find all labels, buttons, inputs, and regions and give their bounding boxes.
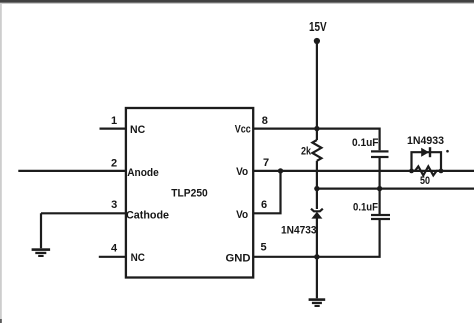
svg-text:3: 3 xyxy=(111,199,117,211)
svg-text:1N4933: 1N4933 xyxy=(407,135,444,147)
svg-text:Cathode: Cathode xyxy=(126,209,169,221)
svg-text:NC: NC xyxy=(131,252,145,264)
svg-text:0.1uF: 0.1uF xyxy=(353,201,378,213)
svg-text:Vo: Vo xyxy=(236,209,248,221)
svg-text:TLP250: TLP250 xyxy=(171,187,207,199)
svg-text:5: 5 xyxy=(260,242,266,254)
svg-text:7: 7 xyxy=(263,157,269,169)
svg-text:Anode: Anode xyxy=(127,167,159,179)
svg-text:1N4733: 1N4733 xyxy=(281,225,317,237)
svg-text:NC: NC xyxy=(130,124,145,136)
svg-text:50: 50 xyxy=(420,175,430,187)
svg-text:Vo: Vo xyxy=(236,166,248,178)
svg-text:4: 4 xyxy=(111,243,118,255)
svg-text:0.1uF: 0.1uF xyxy=(352,137,379,149)
svg-text:2k: 2k xyxy=(301,146,312,158)
svg-text:GND: GND xyxy=(226,252,251,264)
svg-text:1: 1 xyxy=(111,115,117,127)
svg-text:Vcc: Vcc xyxy=(235,124,251,136)
svg-text:8: 8 xyxy=(262,115,268,127)
svg-text:15V: 15V xyxy=(309,20,327,34)
svg-text:2: 2 xyxy=(111,158,117,170)
svg-text:6: 6 xyxy=(261,199,267,211)
